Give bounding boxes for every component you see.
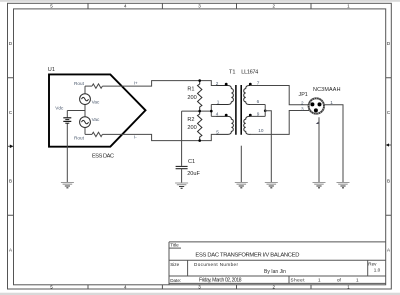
svg-text:5: 5 <box>216 130 219 135</box>
svg-text:1: 1 <box>356 278 359 283</box>
svg-text:Title: Title <box>170 243 179 248</box>
svg-text:Vac: Vac <box>92 117 100 122</box>
svg-text:I+: I+ <box>134 81 138 86</box>
svg-text:1.0: 1.0 <box>374 268 381 273</box>
svg-text:T1: T1 <box>229 70 236 76</box>
svg-text:Friday, March 02, 2018: Friday, March 02, 2018 <box>199 278 242 284</box>
svg-text:10: 10 <box>258 128 264 133</box>
svg-text:C1: C1 <box>188 159 195 165</box>
svg-text:B: B <box>9 179 12 184</box>
svg-text:JP1: JP1 <box>299 92 308 98</box>
svg-text:ESS DAC TRANSFORMER I/V BALANC: ESS DAC TRANSFORMER I/V BALANCED <box>195 253 299 259</box>
svg-text:Vac: Vac <box>92 100 100 105</box>
svg-text:200: 200 <box>187 125 196 131</box>
svg-text:7: 7 <box>257 80 260 85</box>
svg-text:R2: R2 <box>187 117 194 123</box>
svg-text:A: A <box>387 247 390 252</box>
svg-text:4: 4 <box>216 112 219 117</box>
svg-text:Size: Size <box>170 262 179 267</box>
svg-text:1: 1 <box>318 278 321 283</box>
svg-text:200: 200 <box>187 95 196 101</box>
svg-text:1: 1 <box>217 100 220 105</box>
svg-text:A: A <box>9 247 12 252</box>
svg-text:I-: I- <box>134 135 137 140</box>
svg-text:3: 3 <box>301 106 304 111</box>
svg-text:Rout: Rout <box>74 136 85 141</box>
svg-text:LL1674: LL1674 <box>241 70 258 76</box>
svg-text:Rev: Rev <box>368 261 377 266</box>
svg-text:ESS DAC: ESS DAC <box>92 154 114 160</box>
svg-text:Document Number: Document Number <box>194 262 238 267</box>
svg-text:Vdc: Vdc <box>55 106 64 111</box>
svg-text:Rout: Rout <box>74 81 85 86</box>
svg-text:20uF: 20uF <box>187 171 200 177</box>
svg-text:9: 9 <box>257 112 260 117</box>
svg-text:2: 2 <box>216 81 219 86</box>
svg-text:NC3MAAH: NC3MAAH <box>313 87 341 93</box>
svg-text:By Ian Jin: By Ian Jin <box>264 269 286 275</box>
svg-text:R1: R1 <box>187 87 194 93</box>
svg-text:6: 6 <box>257 99 260 104</box>
svg-text:B: B <box>387 179 390 184</box>
svg-text:U1: U1 <box>48 67 55 73</box>
svg-text:Date:: Date: <box>170 278 181 283</box>
svg-text:Sheet: Sheet <box>291 278 306 283</box>
svg-text:2: 2 <box>301 101 304 106</box>
